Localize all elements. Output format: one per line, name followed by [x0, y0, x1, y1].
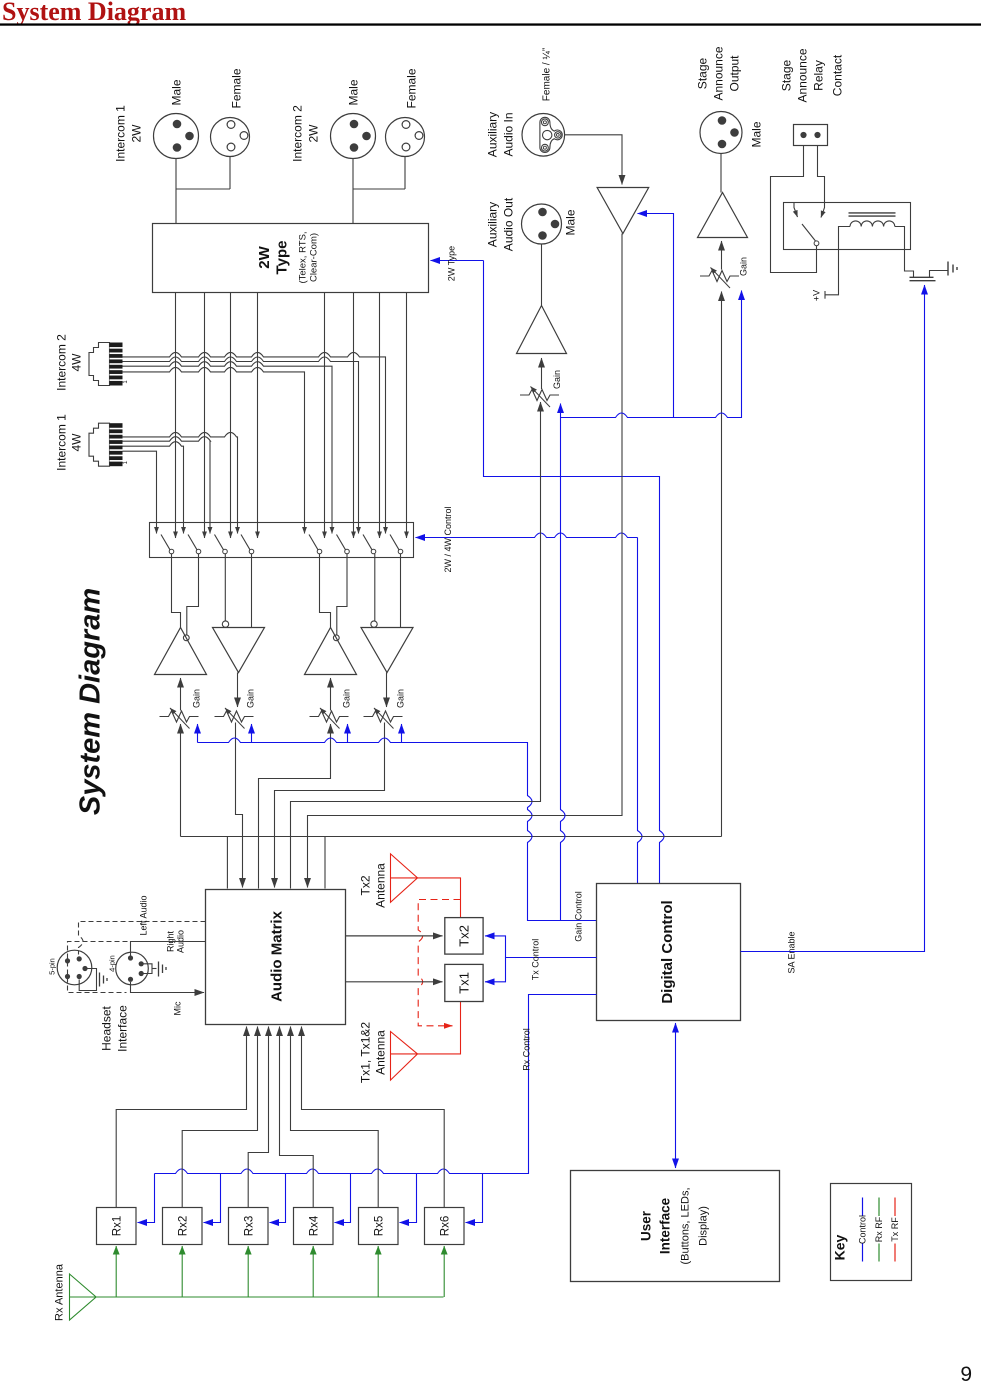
svg-text:2W: 2W	[307, 124, 321, 143]
svg-text:Intercom 1: Intercom 1	[114, 105, 128, 162]
svg-text:5-pin: 5-pin	[48, 958, 57, 975]
svg-text:Digital Control: Digital Control	[659, 900, 676, 1003]
svg-text:Intercom 2: Intercom 2	[55, 334, 69, 391]
svg-text:Announce: Announce	[796, 48, 810, 102]
svg-text:Stage: Stage	[780, 59, 794, 91]
svg-text:Tx2: Tx2	[457, 925, 472, 947]
svg-text:Auxiliary: Auxiliary	[486, 112, 500, 157]
svg-text:Auxiliary: Auxiliary	[486, 202, 500, 247]
svg-text:Key: Key	[832, 1234, 848, 1260]
svg-text:Gain: Gain	[192, 689, 202, 708]
svg-text:Gain: Gain	[396, 689, 406, 708]
svg-text:Female: Female	[405, 68, 419, 108]
svg-text:Gain: Gain	[246, 689, 256, 708]
svg-text:Interface: Interface	[658, 1197, 673, 1254]
svg-text:Rx4: Rx4	[309, 1215, 321, 1236]
svg-text:Relay: Relay	[812, 60, 826, 91]
svg-text:Rx RF: Rx RF	[874, 1216, 884, 1242]
svg-text:Rx5: Rx5	[374, 1216, 386, 1236]
svg-text:Tx Control: Tx Control	[531, 939, 541, 981]
svg-text:Male: Male	[170, 79, 184, 105]
svg-text:Tx1: Tx1	[457, 972, 472, 994]
svg-text:2W Type: 2W Type	[447, 246, 457, 281]
svg-text:Audio Out: Audio Out	[502, 197, 516, 251]
svg-text:Intercom 1: Intercom 1	[55, 414, 69, 471]
svg-text:Left Audio: Left Audio	[139, 895, 149, 935]
svg-text:Female / ¼”: Female / ¼”	[541, 48, 553, 101]
svg-text:Audio Matrix: Audio Matrix	[269, 910, 286, 1001]
svg-text:Rx6: Rx6	[440, 1216, 452, 1236]
svg-text:Headset: Headset	[100, 1005, 114, 1050]
svg-text:Contact: Contact	[831, 54, 845, 96]
svg-text:(Telex, RTS,: (Telex, RTS,	[298, 231, 309, 283]
svg-text:Stage: Stage	[696, 57, 710, 89]
svg-text:(Buttons, LEDs,: (Buttons, LEDs,	[680, 1187, 692, 1264]
svg-text:Gain Control: Gain Control	[574, 891, 584, 942]
svg-text:Display): Display)	[698, 1206, 710, 1246]
svg-text:Interface: Interface	[116, 1005, 130, 1052]
svg-text:Rx Control: Rx Control	[522, 1028, 532, 1071]
svg-text:Audio In: Audio In	[502, 112, 516, 156]
svg-text:4W: 4W	[70, 433, 84, 452]
svg-text:Rx1: Rx1	[112, 1216, 124, 1236]
svg-text:2W: 2W	[256, 245, 273, 268]
svg-text:Intercom 2: Intercom 2	[291, 105, 305, 162]
svg-text:Female: Female	[230, 68, 244, 108]
svg-text:Control: Control	[857, 1215, 867, 1244]
svg-text:Male: Male	[347, 79, 361, 105]
svg-text:Antenna: Antenna	[374, 863, 388, 908]
svg-text:+V: +V	[812, 290, 822, 301]
svg-text:Male: Male	[564, 209, 578, 235]
svg-text:Announce: Announce	[712, 46, 726, 100]
svg-text:Tx1, Tx1&2: Tx1, Tx1&2	[359, 1022, 373, 1083]
svg-text:Gain: Gain	[342, 689, 352, 708]
svg-text:1: 1	[123, 460, 129, 464]
svg-text:2W / 4W Control: 2W / 4W Control	[443, 506, 453, 572]
svg-text:Mic: Mic	[173, 1001, 183, 1015]
svg-text:Output: Output	[728, 55, 742, 92]
svg-text:2W: 2W	[130, 124, 144, 143]
svg-text:4W: 4W	[70, 353, 84, 372]
svg-text:Gain: Gain	[739, 257, 749, 276]
svg-text:9: 9	[960, 1363, 972, 1386]
svg-text:Type: Type	[274, 241, 291, 275]
svg-text:Gain: Gain	[552, 370, 562, 389]
svg-text:User: User	[639, 1210, 654, 1241]
svg-text:Clear-Com): Clear-Com)	[309, 233, 320, 282]
svg-text:System Diagram: System Diagram	[75, 588, 107, 815]
svg-text:Tx RF: Tx RF	[890, 1217, 900, 1242]
svg-text:Rx2: Rx2	[178, 1216, 190, 1236]
svg-text:Tx2: Tx2	[359, 875, 373, 895]
svg-text:4-pin: 4-pin	[108, 955, 117, 972]
svg-text:Rx3: Rx3	[244, 1216, 256, 1236]
svg-text:Male: Male	[750, 121, 764, 147]
svg-text:SA Enable: SA Enable	[787, 931, 797, 973]
svg-text:Antenna: Antenna	[374, 1030, 388, 1075]
svg-text:1: 1	[123, 380, 129, 384]
svg-text:System Diagram: System Diagram	[2, 0, 186, 26]
svg-text:Rx Antenna: Rx Antenna	[54, 1263, 66, 1321]
